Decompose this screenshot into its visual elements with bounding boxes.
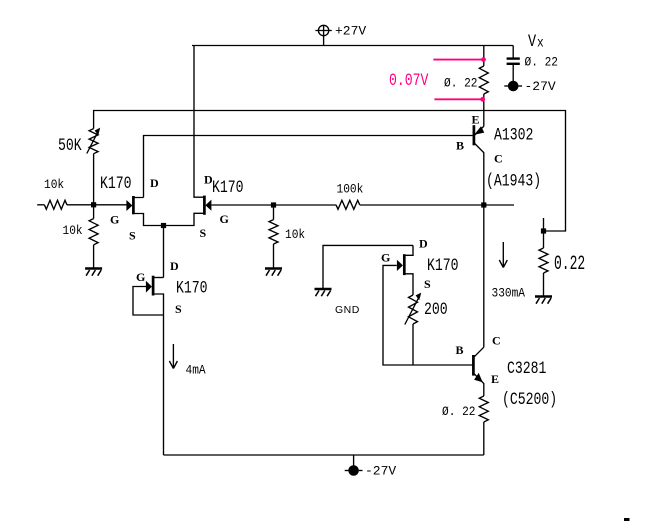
wire right JFET drain to +27V [194,46,204,198]
wire feedback top (50K top to right corner) [94,111,566,232]
pink probe dot bottom [480,97,485,102]
resistor 10k left vertical [89,219,98,245]
svg-text:E: E [491,372,499,386]
transistor C3281 base bar [472,355,475,376]
wire right gate line [211,204,336,206]
junction node right gate [271,202,276,207]
wire left JFET source [134,214,164,226]
svg-text:10k: 10k [63,223,83,238]
svg-text:S: S [200,226,207,240]
svg-text:E: E [472,113,480,127]
wire C3281 collector diagonal [474,347,484,357]
wire bias JFET drain [405,245,413,255]
JFET Q3 gate arrow [146,281,152,293]
svg-text:Ø. 22: Ø. 22 [444,76,478,91]
ground GND net [315,289,332,296]
50K variable arrowhead [95,128,101,136]
svg-text:C3281: C3281 [507,358,546,379]
resistor 100k horizontal [336,200,360,209]
svg-text:K170: K170 [427,255,459,276]
svg-text:A1302: A1302 [494,125,533,146]
transistor C3281 emitter arrow (NPN) [474,373,483,382]
wire emitter 0.22 to rail [483,422,485,455]
ground left 10k [85,269,102,276]
wire A1302 emitter diagonal [475,126,484,135]
wire right JFET source [164,213,205,225]
wire right 0.22 leads [543,231,545,248]
svg-text:D: D [419,237,428,251]
svg-text:100k: 100k [337,182,364,197]
wire A1302 collector diagonal and main vertical [475,144,484,348]
current arrow 330mA [499,242,507,268]
resistor 10k input horizontal [44,200,67,209]
svg-text:G: G [220,212,229,226]
wire 200 bottom to base wire [412,324,414,365]
wire capacitor branch [512,46,514,58]
svg-text:D: D [150,176,159,190]
svg-text:B: B [456,139,464,153]
wire current sink gate loop [133,287,164,316]
wire stub above right junction [543,218,545,231]
svg-text:S: S [424,277,431,291]
wire current sink source down to rail [153,294,163,455]
resistor 10k right vertical [269,220,278,244]
svg-text:+27V: +27V [335,24,366,39]
resistor 0.22 right (feedback) [539,248,548,273]
svg-text:B: B [456,343,464,357]
svg-text:S: S [175,302,182,316]
200 variable arrowhead [416,293,422,301]
wire -27V bottom stub [353,455,355,466]
svg-text:200: 200 [424,299,448,320]
wire 50K bottom lead [93,154,95,205]
JFET Q3 K170 current sink: channel bar [152,276,155,296]
svg-text:-27V: -27V [525,79,556,94]
wire current sink drain stub [153,277,163,279]
wire input lead [37,204,44,206]
wire common source to current sink [163,226,165,278]
svg-text:330mA: 330mA [492,286,526,301]
wire C3281 emitter diagonal down [474,374,484,396]
wire A1302 emitter branch from rail [483,46,485,67]
wire +27V top rail [192,45,513,47]
svg-text:Ø. 22: Ø. 22 [525,55,559,70]
JFET Q2 K170 right: channel bar [203,196,206,215]
stray mark bottom right [624,518,630,521]
wire left 10k leads [93,205,95,219]
-27V terminal top right [504,81,522,92]
svg-text:Ø. 22: Ø. 22 [442,404,476,419]
svg-text:GND: GND [335,304,360,316]
pink probe line top [433,59,484,61]
wire left JFET drain to A1302 base [134,136,473,198]
resistor 0.22 emitter [479,396,488,422]
svg-text:10k: 10k [44,177,64,192]
JFET Q1 K170 left: channel bar [132,196,135,214]
transistor A1302 emitter arrow (PNP) [474,126,484,135]
capacitor 0.22 plates [507,57,520,59]
JFET Q4 K170 bias: channel bar [403,254,406,275]
junction node input gate [91,202,96,207]
svg-text:S: S [129,229,136,243]
svg-text:-27V: -27V [365,464,396,479]
wire GND net [323,245,413,288]
+27V supply symbol [315,25,331,45]
svg-text:G: G [110,213,119,227]
svg-text:C: C [492,334,501,348]
svg-text:G: G [136,270,145,284]
current arrow 4mA [169,344,177,369]
svg-text:K170: K170 [212,177,244,198]
wire bias gate loop to C3281 base [383,265,473,365]
svg-text:50K: 50K [58,135,82,156]
svg-text:x: x [537,34,544,51]
wire 100k to collector node [360,204,514,206]
svg-text:G: G [381,251,390,265]
svg-text:0.07V: 0.07V [389,70,429,91]
svg-text:(A1943): (A1943) [486,171,541,192]
wire right 10k leads [273,205,275,220]
svg-text:(C5200): (C5200) [502,389,557,410]
JFET Q1 gate arrow [126,200,132,211]
wire bottom rail [164,454,484,456]
svg-text:C: C [494,152,503,166]
svg-text:V: V [528,31,536,51]
svg-text:0.22: 0.22 [554,253,585,276]
svg-text:K170: K170 [176,278,208,299]
resistor 0.22 top (output) [479,66,488,94]
pink probe dot top [481,57,486,62]
svg-text:10k: 10k [285,227,305,242]
resistor 200 variable [409,295,418,324]
wire bias JFET source to 200 [405,274,413,295]
svg-text:D: D [170,259,179,273]
junction node common source [161,223,166,228]
JFET Q4 gate arrow [397,260,403,271]
junction node feedback/0.22 [541,228,546,233]
junction node collector/100k [481,202,486,207]
JFET Q2 gate arrow [205,200,211,211]
svg-text:K170: K170 [100,173,132,194]
svg-text:4mA: 4mA [186,363,207,378]
transistor A1302 base bar [473,125,476,145]
resistor 50K variable [89,129,98,154]
pink probe line bottom [434,98,483,100]
-27V terminal bottom [345,465,363,476]
ground right 10k [265,269,282,276]
ground right 0.22 [535,297,552,304]
